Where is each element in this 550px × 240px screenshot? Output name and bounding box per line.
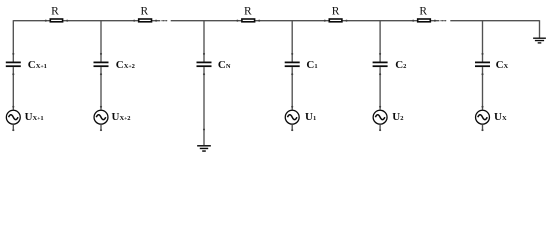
label CX+1 [28,59,47,71]
svg-text:UX+2: UX+2 [112,111,131,123]
wire top rail stub after R5 [431,20,440,22]
svg-text:CX: CX [496,59,509,71]
wire stub below source UX [481,125,483,131]
label CN [218,59,231,71]
svg-text:R: R [51,6,59,18]
wire capacitor CX to source UX [481,67,483,110]
ellipsis dots on rail (left) [161,20,167,21]
label R5 value "R" [419,6,427,18]
wire top rail segment 3 (to R3 through node N) [171,20,242,22]
wire capacitor C1 to source U1 [291,67,293,110]
wire top rail segment 6 (to right end through node X) [450,20,539,22]
wire capacitor CN to ground [203,67,205,145]
svg-text:UX+1: UX+1 [25,111,44,123]
wire top rail segment 2 (R1 to R2 through node X+2) [63,20,138,22]
label R2 value "R" [140,6,148,18]
label R1 value "R" [51,6,59,18]
capacitor CN [197,62,212,66]
label CX [496,59,509,71]
wire stub below source UX+2 [100,125,102,131]
label UX+2 [112,111,131,123]
svg-text:C1: C1 [306,59,317,71]
svg-text:CN: CN [218,59,231,71]
svg-text:UX: UX [494,111,507,123]
ac source UX [476,110,490,124]
label UX [494,111,507,123]
label R4 value "R" [332,6,340,18]
capacitor C2 [373,62,388,66]
wire vertical branch N (rail to capacitor) [203,20,205,61]
wire stub below source UX+1 [12,125,14,131]
wire top rail segment 1 (node X+1 to R1) [13,20,50,22]
ac source U1 [285,110,299,124]
label U2 [392,111,403,123]
resistor R1 [45,19,68,22]
wire vertical branch X+2 (rail to capacitor) [100,20,102,61]
svg-text:R: R [332,6,340,18]
wire vertical branch 2 (rail to capacitor) [379,20,381,61]
svg-text:CX+1: CX+1 [28,59,47,71]
wire vertical branch 1 (rail to capacitor) [291,20,293,61]
wire stub below source U1 [291,125,293,131]
capacitor CX+2 [94,62,109,66]
wire top rail stub after R2 [152,20,160,22]
wire capacitor CX+1 to source UX+1 [12,67,14,110]
label UX+1 [25,111,44,123]
wire right end down stem [539,20,541,37]
label C2 [395,59,406,71]
svg-text:CX+2: CX+2 [116,59,135,71]
resistor R4 [324,19,348,22]
label R3 value "R" [244,6,252,18]
svg-text:R: R [244,6,252,18]
wire top rail segment 5 (R4 to R5 through node 2) [342,20,417,22]
ac source UX+2 [94,110,108,124]
ground (bottom, under CN) [197,146,211,151]
ellipsis dots on rail (right) [440,20,446,21]
svg-text:R: R [419,6,427,18]
svg-text:C2: C2 [395,59,406,71]
label C1 [306,59,317,71]
ac source UX+1 [6,110,20,124]
svg-text:U1: U1 [305,111,316,123]
wire vertical branch X+1 (rail to capacitor) [12,20,14,61]
wire vertical branch X (rail to capacitor) [481,20,483,61]
svg-text:U2: U2 [392,111,403,123]
resistor R3 [236,19,260,22]
capacitor CX+1 [6,62,21,66]
ac source U2 [373,110,387,124]
wire capacitor C2 to source U2 [379,67,381,110]
wire stub below source U2 [379,125,381,131]
svg-text:R: R [140,6,148,18]
resistor R5 [412,19,436,22]
label U1 [305,111,316,123]
wire top rail segment 4 (R3 to R4 through node 1) [255,20,329,22]
capacitor C1 [285,62,300,66]
label CX+2 [116,59,135,71]
resistor R2 [133,19,157,22]
ground (top right) [533,38,546,43]
wire capacitor CX+2 to source UX+2 [100,67,102,110]
capacitor CX [475,62,490,66]
